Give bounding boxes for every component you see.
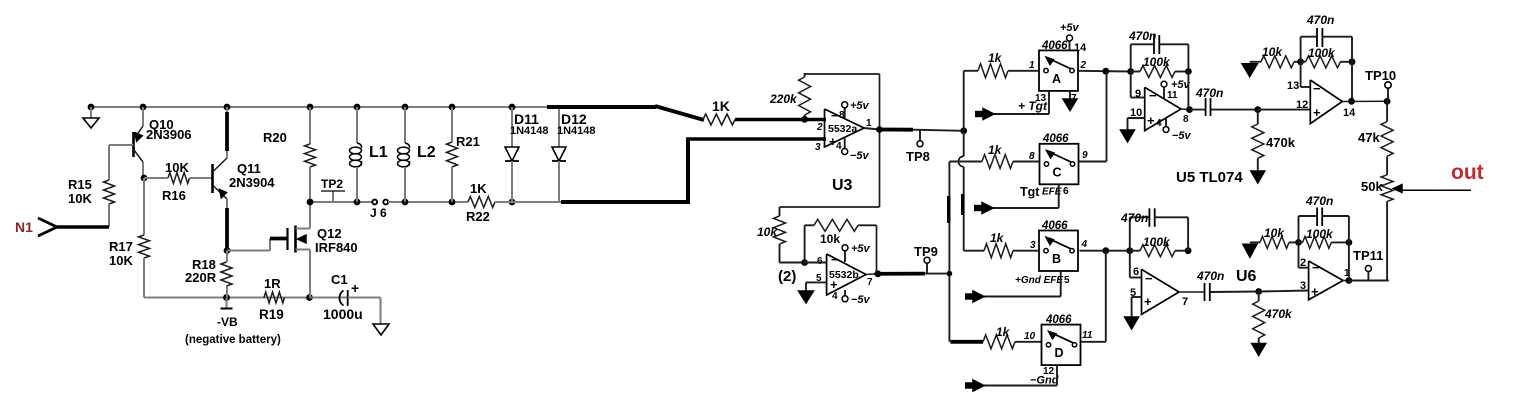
svg-text:100k: 100k — [1143, 55, 1171, 69]
svg-text:1N4148: 1N4148 — [510, 125, 549, 137]
svg-text:−5v: −5v — [1172, 130, 1192, 142]
svg-text:C: C — [1053, 165, 1062, 179]
svg-text:Q11: Q11 — [237, 161, 261, 176]
svg-text:10K: 10K — [109, 253, 133, 268]
svg-text:−: − — [831, 108, 839, 123]
svg-text:6: 6 — [1063, 186, 1069, 197]
svg-text:3: 3 — [1030, 240, 1036, 251]
svg-text:+: + — [1311, 284, 1319, 299]
svg-text:470n: 470n — [1128, 29, 1156, 43]
svg-text:4: 4 — [836, 141, 842, 152]
svg-text:+: + — [351, 280, 359, 296]
svg-text:100k: 100k — [1143, 235, 1171, 249]
svg-text:5: 5 — [1064, 275, 1070, 286]
svg-text:J 6: J 6 — [370, 206, 387, 220]
svg-text:220R: 220R — [185, 270, 217, 285]
svg-text:+5v: +5v — [850, 100, 870, 112]
svg-text:TP10: TP10 — [1365, 68, 1396, 83]
svg-text:14: 14 — [1343, 107, 1356, 119]
svg-text:TP11: TP11 — [1353, 248, 1383, 263]
svg-text:R21: R21 — [456, 134, 480, 149]
svg-text:−: − — [1149, 88, 1157, 103]
svg-text:IRF840: IRF840 — [315, 240, 358, 255]
svg-text:TP9: TP9 — [914, 244, 938, 259]
svg-text:1k: 1k — [996, 325, 1011, 339]
svg-text:−: − — [1313, 81, 1321, 96]
svg-text:1: 1 — [1029, 60, 1035, 71]
svg-text:−5v: −5v — [850, 150, 870, 162]
svg-text:11: 11 — [1082, 330, 1093, 341]
svg-text:1N4148: 1N4148 — [557, 125, 596, 137]
svg-text:R15: R15 — [68, 177, 92, 192]
svg-text:C1: C1 — [331, 272, 348, 287]
svg-text:2: 2 — [1300, 257, 1306, 269]
svg-text:+5v: +5v — [851, 243, 871, 255]
svg-text:13: 13 — [1287, 80, 1299, 92]
svg-text:R17: R17 — [109, 239, 133, 254]
svg-text:470n: 470n — [1196, 269, 1224, 283]
svg-text:R22: R22 — [466, 209, 490, 224]
svg-text:3: 3 — [815, 142, 821, 153]
svg-text:470n: 470n — [1305, 194, 1333, 208]
svg-text:4: 4 — [1156, 118, 1162, 129]
svg-text:11: 11 — [1167, 90, 1178, 101]
svg-text:1000u: 1000u — [323, 306, 363, 322]
svg-text:L2: L2 — [417, 144, 436, 161]
svg-text:(negative battery): (negative battery) — [185, 334, 281, 346]
svg-text:Tgt: Tgt — [1020, 185, 1040, 199]
svg-text:R20: R20 — [263, 130, 287, 145]
svg-text:10K: 10K — [68, 191, 92, 206]
svg-text:10k: 10k — [757, 225, 778, 239]
svg-text:(2): (2) — [778, 268, 796, 285]
svg-text:Q12: Q12 — [317, 226, 342, 241]
svg-text:8: 8 — [839, 110, 845, 121]
svg-text:+5v: +5v — [1060, 22, 1080, 34]
svg-text:7: 7 — [1182, 296, 1188, 308]
svg-text:+ Tgt: + Tgt — [1018, 99, 1048, 113]
svg-text:9: 9 — [1082, 150, 1088, 161]
svg-text:4066: 4066 — [1045, 314, 1072, 326]
svg-text:470k: 470k — [1264, 307, 1293, 321]
svg-text:7: 7 — [867, 277, 873, 288]
svg-text:2: 2 — [1080, 60, 1087, 71]
svg-text:470k: 470k — [1266, 135, 1296, 150]
svg-text:1k: 1k — [988, 51, 1003, 65]
svg-text:D: D — [1055, 346, 1064, 360]
svg-text:10k: 10k — [1262, 45, 1283, 59]
svg-text:8: 8 — [1183, 114, 1189, 125]
svg-text:−: − — [1312, 260, 1320, 275]
svg-text:U5 TL074: U5 TL074 — [1176, 169, 1243, 186]
svg-text:1K: 1K — [470, 181, 487, 196]
svg-text:10: 10 — [1024, 331, 1036, 342]
svg-text:TP8: TP8 — [906, 149, 930, 164]
svg-text:50k: 50k — [1361, 179, 1383, 194]
svg-text:+: + — [1147, 113, 1155, 128]
svg-text:1k: 1k — [990, 231, 1005, 245]
svg-text:100k: 100k — [1308, 46, 1336, 60]
svg-text:5532a: 5532a — [828, 123, 857, 135]
svg-text:470n: 470n — [1195, 86, 1223, 100]
svg-text:2N3906: 2N3906 — [146, 127, 192, 142]
svg-text:4066: 4066 — [1041, 40, 1068, 52]
svg-text:-VB: -VB — [217, 315, 238, 329]
svg-text:+Gnd EFE: +Gnd EFE — [1015, 275, 1063, 286]
svg-text:1R: 1R — [264, 276, 281, 291]
svg-text:14: 14 — [1074, 42, 1087, 54]
svg-text:10k: 10k — [1264, 226, 1285, 240]
svg-text:4: 4 — [1081, 239, 1088, 250]
svg-text:4066: 4066 — [1041, 220, 1068, 232]
svg-text:−: − — [831, 252, 839, 267]
svg-text:U3: U3 — [832, 177, 853, 194]
svg-text:10K: 10K — [165, 160, 189, 175]
svg-text:B: B — [1052, 252, 1061, 266]
svg-text:out: out — [1451, 161, 1484, 184]
svg-text:N1: N1 — [15, 219, 33, 235]
svg-text:470n: 470n — [1120, 211, 1148, 225]
svg-text:−: − — [1145, 271, 1153, 286]
svg-text:5532b: 5532b — [829, 269, 859, 281]
svg-text:10k: 10k — [820, 232, 840, 246]
svg-text:9: 9 — [1135, 88, 1141, 100]
svg-text:4066: 4066 — [1042, 133, 1069, 145]
svg-text:4: 4 — [832, 291, 838, 302]
svg-text:+: + — [1144, 294, 1152, 309]
svg-text:2: 2 — [816, 122, 823, 133]
svg-text:TP2: TP2 — [321, 177, 343, 191]
svg-text:2N3904: 2N3904 — [229, 175, 275, 190]
svg-text:47k: 47k — [1358, 130, 1380, 145]
svg-text:6: 6 — [1133, 266, 1139, 278]
svg-text:1k: 1k — [988, 143, 1003, 157]
svg-text:100k: 100k — [1306, 227, 1334, 241]
svg-text:8: 8 — [1029, 151, 1035, 162]
svg-text:R19: R19 — [259, 307, 284, 322]
svg-text:220k: 220k — [769, 92, 798, 106]
svg-text:+: + — [1313, 105, 1321, 120]
svg-text:1K: 1K — [712, 98, 730, 114]
svg-text:−5v: −5v — [851, 294, 871, 306]
svg-text:6: 6 — [817, 256, 823, 267]
svg-text:A: A — [1052, 72, 1061, 86]
svg-text:L1: L1 — [369, 144, 388, 161]
svg-text:U6: U6 — [1236, 268, 1257, 285]
svg-text:470n: 470n — [1306, 13, 1334, 27]
svg-text:R16: R16 — [162, 188, 186, 203]
